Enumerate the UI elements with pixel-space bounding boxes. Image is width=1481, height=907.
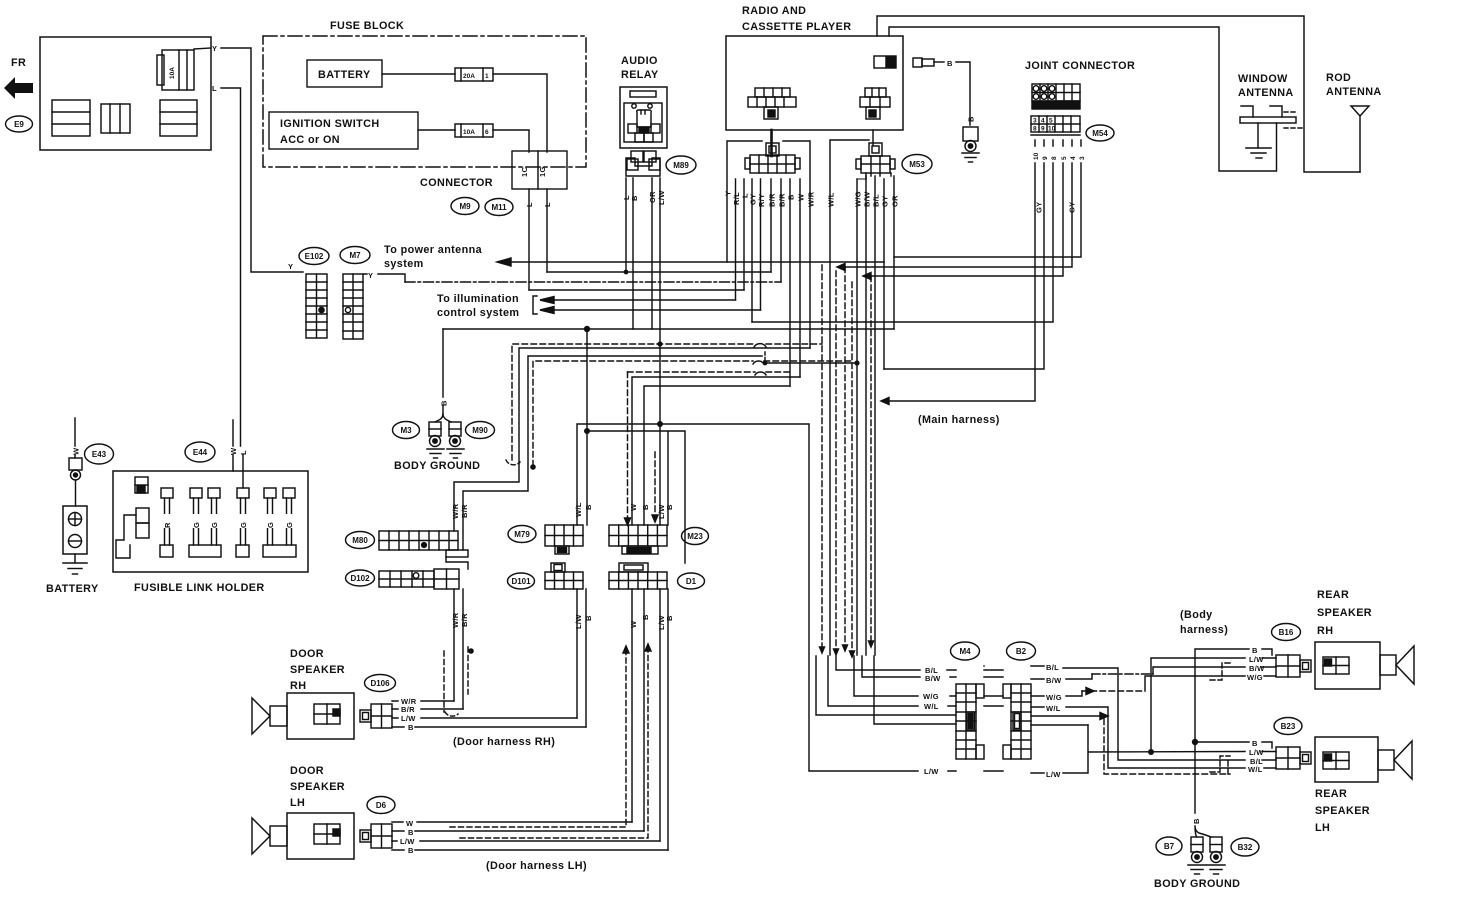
wire harness bundle dashed 4: [870, 276, 872, 643]
svg-text:(Door harness RH): (Door harness RH): [453, 736, 555, 748]
svg-text:D102: D102: [350, 574, 370, 583]
svg-text:E102: E102: [305, 252, 324, 261]
connector ref M4: [951, 642, 980, 660]
wire to illumination 2: [551, 309, 761, 311]
wire L from 1C down: [528, 189, 530, 290]
wire radio R/L to illumination: [735, 179, 737, 300]
fusible link hook wire in holder: [116, 508, 149, 558]
ground symbol M3: [427, 449, 444, 458]
connector ref B16: [1272, 624, 1301, 641]
speaker rear LH: [1315, 737, 1412, 782]
connector ref B7: [1156, 837, 1182, 855]
svg-text:M7: M7: [349, 251, 361, 260]
svg-text:W/L: W/L: [1248, 765, 1263, 774]
svg-text:B/R: B/R: [768, 193, 777, 207]
svg-text:B/R: B/R: [401, 705, 415, 714]
svg-text:W/L: W/L: [924, 702, 939, 711]
svg-text:REAR: REAR: [1317, 589, 1349, 601]
connector M4 grid: [956, 684, 984, 759]
svg-text:W/L: W/L: [574, 502, 583, 517]
connector D102 grid: [379, 569, 459, 589]
svg-text:B: B: [787, 194, 796, 200]
ground symbol M90: [447, 449, 464, 458]
connector M7 grid: [343, 274, 363, 339]
svg-text:L/W: L/W: [401, 714, 416, 723]
svg-text:1G: 1G: [538, 166, 547, 177]
connector M23 grid: [609, 525, 667, 554]
svg-text:M54: M54: [1092, 129, 1108, 138]
svg-text:B23: B23: [1281, 722, 1296, 731]
svg-text:B: B: [584, 615, 593, 621]
wire D101 L/W down to D106: [576, 589, 578, 718]
svg-text:(Body: (Body: [1180, 609, 1213, 621]
wire B/R front door feed (M80 to jog): [463, 356, 762, 550]
svg-text:B: B: [665, 615, 674, 621]
svg-text:L/W: L/W: [1249, 748, 1264, 757]
svg-text:W/G: W/G: [1046, 693, 1062, 702]
wire W/R front door feed (M80 to radio W/R): [454, 348, 810, 531]
svg-text:4: 4: [1041, 118, 1045, 125]
svg-text:ANTENNA: ANTENNA: [1238, 87, 1294, 99]
svg-text:W: W: [629, 503, 638, 511]
wire JC pin5: [871, 140, 1063, 276]
svg-text:B: B: [1252, 739, 1258, 748]
jog B/R to W/G junction: [764, 352, 766, 363]
svg-text:B/W: B/W: [925, 674, 941, 683]
wire M4-B2 inline links: [984, 670, 1003, 771]
svg-text:M90: M90: [472, 426, 488, 435]
connector D6: [360, 824, 392, 848]
svg-text:IGNITION SWITCH: IGNITION SWITCH: [280, 118, 380, 130]
wire Y dash-dot trunk: [405, 281, 781, 283]
svg-text:B/R: B/R: [460, 613, 469, 627]
wire D102 W/R down to D106: [453, 589, 455, 701]
svg-text:Y: Y: [288, 262, 293, 271]
svg-text:M89: M89: [673, 161, 689, 170]
wire front speaker B (radio B to M23): [644, 386, 790, 525]
wire L from E9 down to fusible link holder: [221, 88, 241, 446]
wire battery to fuse 20A: [382, 73, 455, 75]
svg-text:GY: GY: [1068, 202, 1077, 213]
fuse 10A 6: [455, 124, 493, 137]
ground battery: [63, 554, 87, 574]
wire B2 mid pin harness stub 2: [1031, 724, 1088, 726]
speaker door RH: [252, 693, 354, 739]
wire M4 mid pin 1: [816, 656, 956, 715]
svg-text:ROD: ROD: [1326, 72, 1351, 84]
svg-text:BATTERY: BATTERY: [318, 69, 371, 81]
speaker door LH: [252, 813, 354, 859]
fusible link G5: [263, 488, 296, 557]
wire D106 B/R: [392, 708, 463, 710]
connector 1C 1G: [512, 151, 567, 189]
svg-text:G: G: [266, 522, 275, 528]
wire B/W bundle corner to M4: [862, 656, 956, 677]
connector ref M89: [666, 156, 696, 174]
svg-text:E44: E44: [193, 448, 208, 457]
svg-text:B16: B16: [1279, 628, 1294, 637]
wire radio B/R (2) to ACC line: [780, 179, 782, 282]
wire JC pin9: [884, 140, 1044, 369]
svg-text:DOOR: DOOR: [290, 648, 324, 660]
svg-text:M80: M80: [352, 536, 368, 545]
svg-text:4: 4: [1070, 156, 1077, 160]
svg-text:L/W: L/W: [924, 767, 939, 776]
svg-text:RADIO AND: RADIO AND: [742, 5, 806, 17]
svg-text:W/R: W/R: [807, 191, 816, 207]
svg-text:8: 8: [1033, 126, 1037, 133]
svg-text:L/W: L/W: [1046, 770, 1061, 779]
connector ref M79: [508, 526, 536, 543]
svg-text:B: B: [408, 846, 414, 855]
wire harness dashed loop B: [533, 361, 753, 466]
svg-text:E43: E43: [92, 450, 107, 459]
svg-text:To power antenna: To power antenna: [384, 244, 483, 256]
relay U1 audio relay box: [620, 87, 667, 148]
wire ignition to fuse 10A: [418, 129, 455, 131]
svg-text:R/Y: R/Y: [757, 194, 766, 207]
wire B/L bundle corner to M4: [836, 656, 956, 670]
connector symbol middle in E9 box: [101, 104, 130, 133]
svg-text:SPEAKER: SPEAKER: [1317, 607, 1372, 619]
svg-text:10A: 10A: [463, 129, 475, 136]
arrow bundle dashed 3: [850, 651, 855, 657]
svg-text:R: R: [163, 522, 172, 528]
svg-text:BATTERY: BATTERY: [46, 583, 99, 595]
svg-text:ACC or ON: ACC or ON: [280, 134, 340, 146]
svg-text:M53: M53: [909, 160, 925, 169]
svg-text:L: L: [212, 84, 217, 93]
svg-text:B: B: [967, 116, 976, 122]
connector B23: [1276, 747, 1311, 769]
svg-text:M9: M9: [459, 202, 471, 211]
svg-text:L/W: L/W: [574, 614, 583, 629]
junction door harness RH: [468, 648, 474, 654]
connector ref M23: [682, 528, 709, 545]
svg-text:E9: E9: [14, 120, 24, 129]
wire relay B down to ground line: [632, 178, 634, 329]
svg-text:W/L: W/L: [1046, 704, 1061, 713]
wire L lower segment into link: [242, 455, 244, 488]
ground condenser: [962, 153, 979, 162]
wire JC pin4: [845, 140, 1072, 267]
wire fuse 10A to connector 1C: [493, 130, 529, 152]
svg-text:L: L: [525, 202, 534, 207]
svg-text:W/G: W/G: [923, 692, 939, 701]
svg-text:D1: D1: [686, 577, 697, 586]
arrow W/G harness: [1086, 688, 1094, 695]
svg-text:W/R: W/R: [451, 612, 460, 628]
wire radio B down into maze: [789, 179, 791, 386]
connector ref M54: [1086, 125, 1114, 141]
svg-text:W: W: [72, 447, 81, 455]
svg-text:10A: 10A: [169, 67, 176, 79]
svg-text:FR: FR: [11, 57, 26, 69]
connector ref E102: [299, 248, 329, 265]
svg-text:OR: OR: [891, 195, 900, 207]
fusible link small fuse in holder: [135, 477, 148, 493]
svg-text:B/L: B/L: [872, 194, 881, 207]
svg-text:DOOR: DOOR: [290, 765, 324, 777]
bracket illumination: [533, 296, 537, 314]
connector ref M3: [393, 422, 420, 439]
svg-text:B: B: [630, 195, 639, 201]
fusible link G3 (L wire): [236, 488, 249, 557]
wire D106 W/R: [392, 700, 454, 702]
junction dashed B: [530, 464, 536, 470]
svg-text:5: 5: [1061, 156, 1068, 160]
junction W/G branch: [763, 361, 768, 366]
wire B rear speakers to body ground: [1195, 649, 1249, 813]
junction M79 B on ground trunk: [584, 326, 590, 332]
svg-text:B2: B2: [1016, 647, 1027, 656]
arrow bundle dashed 1: [820, 647, 825, 653]
svg-text:10: 10: [1033, 152, 1040, 160]
fuse symbol left in E9 box: [52, 100, 90, 136]
wire B2 mid pin harness stub 1: [1031, 715, 1100, 717]
arrow illumination 1: [540, 297, 554, 304]
wire radio L to ACC line: [743, 179, 745, 290]
svg-text:BODY GROUND: BODY GROUND: [1154, 878, 1240, 890]
joint connector upper grid: [1032, 84, 1080, 109]
svg-text:B: B: [641, 614, 650, 620]
connector ref E43: [85, 444, 114, 464]
svg-text:G: G: [285, 522, 294, 528]
svg-text:harness): harness): [1180, 624, 1228, 636]
wire ACC line (1C L to radio B/R2): [529, 289, 744, 291]
wire relay L/W down through maze to M23: [659, 178, 661, 525]
wire M53 W/L (routed around connector) down to M4 bundle: [830, 140, 869, 655]
connector ref D1: [678, 573, 705, 589]
connector ref M53: [902, 155, 932, 174]
harness cut arc A: [506, 460, 520, 465]
body ground split: [435, 414, 451, 422]
connector ref B32: [1231, 838, 1259, 856]
svg-text:B/R: B/R: [460, 504, 469, 518]
connector ref M80: [346, 532, 375, 549]
svg-text:W/R: W/R: [451, 503, 460, 519]
svg-text:1: 1: [485, 73, 489, 80]
fuse 10A (vertical) in E9 box: [157, 48, 211, 90]
svg-text:G: G: [210, 522, 219, 528]
arrow harness JC pin4: [837, 264, 845, 271]
svg-text:BODY GROUND: BODY GROUND: [394, 460, 480, 472]
battery BT1: [63, 506, 87, 554]
svg-text:B7: B7: [1164, 842, 1175, 851]
svg-text:W: W: [797, 193, 806, 201]
body ground split rear: [1195, 826, 1211, 837]
harness joint arc A: [754, 344, 766, 347]
wire L/W branch to M4: [809, 770, 956, 772]
wire D6 B: [392, 830, 644, 832]
svg-text:M23: M23: [687, 532, 703, 541]
svg-text:M79: M79: [514, 530, 530, 539]
svg-text:M3: M3: [400, 426, 412, 435]
arrow harness C down: [625, 518, 631, 525]
connector ref M11: [485, 199, 513, 216]
arrow harness L/W down: [652, 515, 658, 522]
wire W/L bundle corner to M4: [828, 656, 956, 706]
arrow harness JC pin5: [863, 273, 871, 280]
arrow door harness LH 2: [645, 644, 651, 651]
radio internal connector grid right: [860, 88, 890, 119]
svg-text:Y: Y: [368, 271, 373, 280]
wire B to condenser: [956, 62, 970, 125]
svg-text:CONNECTOR: CONNECTOR: [420, 177, 493, 189]
dashed body harness boundary: [1104, 719, 1230, 774]
arrow to power antenna: [497, 258, 511, 266]
fusible link R: [160, 488, 173, 557]
condenser on B wire: [963, 127, 978, 152]
wire M53 B/W down to M4 bundle: [866, 173, 871, 655]
connector D1 grid: [609, 563, 667, 589]
wire harness dashed partner L/W: [654, 452, 656, 515]
connector ref D106: [365, 675, 396, 692]
joint connector pin numbers: [1033, 152, 1086, 160]
svg-text:B: B: [408, 828, 414, 837]
connector D101 grid: [545, 563, 583, 589]
rod antenna element: [1351, 106, 1369, 172]
svg-text:L/W: L/W: [400, 837, 415, 846]
wire W/L B2 to B23: [1031, 707, 1245, 768]
wire D1 W down to D6: [631, 589, 633, 822]
svg-text:FUSIBLE LINK HOLDER: FUSIBLE LINK HOLDER: [134, 582, 265, 594]
svg-text:LH: LH: [1315, 822, 1330, 834]
arrow bundle dashed 1b: [834, 649, 839, 655]
svg-text:B/W: B/W: [1046, 676, 1062, 685]
connector ref M90: [466, 422, 495, 439]
svg-text:B: B: [641, 504, 650, 510]
connector ref B23: [1274, 718, 1302, 735]
svg-text:Y: Y: [212, 44, 217, 53]
ground post M90: [449, 422, 461, 447]
wire shield B line (M79 B / M23 B / D1): [587, 329, 685, 563]
junction relay L on battery line: [624, 270, 629, 275]
svg-text:W/L: W/L: [827, 192, 836, 207]
wire radio R/Y to illumination: [760, 179, 762, 310]
wire Y from M7 (dash-dot to radio Y): [363, 274, 405, 282]
connector E102 grid: [306, 274, 327, 338]
fusible link G2: [189, 488, 221, 557]
ground post M3: [429, 422, 441, 447]
fuse block dash-dot border: [263, 36, 586, 167]
wire D1 B right down to D6: [667, 589, 669, 850]
wire JC pin3 to M53 OR: [894, 140, 1081, 257]
svg-text:20A: 20A: [463, 73, 475, 80]
svg-text:9: 9: [1041, 126, 1045, 133]
ground post B32: [1210, 837, 1222, 863]
radio B pigtail connector: [913, 58, 944, 67]
svg-text:G: G: [239, 522, 248, 528]
wire rear L/W branch line: [577, 424, 809, 770]
connector M80 grid: [379, 531, 468, 557]
wire Y from E9 down to E102: [221, 48, 303, 272]
wire radio W/R (routed around connector) down into maze: [783, 141, 810, 348]
radio main connector (10pin): [745, 130, 800, 173]
svg-text:8: 8: [1051, 156, 1058, 160]
harness joint arc B: [753, 361, 764, 364]
dashed door harness LH boundary 1: [450, 652, 626, 827]
svg-text:W/G: W/G: [1247, 673, 1263, 682]
wire relay L down to junction 272: [625, 178, 627, 272]
wire radio Y (pin1, routed around connector): [727, 141, 762, 262]
svg-text:1C: 1C: [520, 167, 529, 177]
wire radio B/R (1) to battery feed line: [770, 179, 772, 272]
junction dashed A on L/W wire: [657, 341, 662, 346]
arrow door harness LH 1: [623, 646, 629, 653]
wire D1 L/W down to D6: [659, 589, 661, 841]
wire D6 W: [392, 821, 632, 823]
arrow bundle dashed 4: [869, 641, 874, 647]
wire harness bundle dashed 1b: [835, 271, 837, 650]
svg-text:W: W: [629, 620, 638, 628]
svg-text:M4: M4: [959, 647, 971, 656]
speaker rear RH: [1315, 642, 1414, 689]
svg-text:SPEAKER: SPEAKER: [1315, 805, 1370, 817]
wire D6 B 2: [392, 849, 668, 851]
junction shield B: [584, 428, 590, 434]
wire W stub to holder: [232, 420, 234, 471]
radio antenna jack component: [874, 56, 896, 68]
connector M89 body: [626, 151, 660, 176]
wire body ground drop: [442, 329, 444, 414]
wire L/W B2 to B16 B23: [1031, 725, 1245, 773]
wire JC pin8 to radio GY: [752, 140, 1053, 322]
wire radio GY to joint connector line: [751, 179, 753, 322]
svg-text:GY: GY: [1035, 202, 1044, 213]
connector M79 grid: [545, 525, 583, 554]
wire D102 B/R down to D106: [462, 589, 464, 709]
svg-text:(Main harness): (Main harness): [918, 414, 1000, 426]
svg-text:RELAY: RELAY: [621, 69, 659, 81]
junction B at B23: [1192, 739, 1198, 745]
connector B16: [1276, 655, 1311, 677]
wire battery feed line (1G L to radio B/R, relay L): [547, 271, 771, 273]
svg-text:AUDIO: AUDIO: [621, 55, 658, 67]
svg-text:WINDOW: WINDOW: [1238, 73, 1288, 85]
svg-text:B32: B32: [1238, 843, 1253, 852]
svg-text:CASSETTE PLAYER: CASSETTE PLAYER: [742, 21, 851, 33]
fuse 20A 1: [455, 68, 493, 81]
wire harness dashed loop C: [627, 372, 629, 518]
wire M53 W/G down to M4 bundle: [857, 173, 866, 655]
battery terminal connector: [69, 458, 82, 506]
svg-text:L: L: [239, 450, 248, 455]
ground post B7: [1191, 837, 1203, 863]
wire harness bundle dashed 3: [851, 282, 853, 653]
svg-text:B: B: [947, 59, 953, 68]
arrow illumination 2: [540, 307, 554, 314]
connector ref M9: [451, 198, 479, 215]
svg-text:REAR: REAR: [1315, 788, 1347, 800]
connector ref D6: [367, 797, 395, 814]
svg-text:G: G: [192, 522, 201, 528]
joint connector lower grid M54: [1031, 116, 1080, 135]
svg-text:B/L: B/L: [1046, 663, 1059, 672]
fuse symbol right in E9 box: [160, 100, 197, 136]
arrow harness JC pin10: [881, 398, 889, 405]
wire D1 B down to D6: [643, 589, 645, 831]
ground window antenna: [1246, 148, 1271, 158]
wire antenna feed radio to rod antenna: [877, 16, 1360, 172]
svg-text:B/W: B/W: [1249, 664, 1265, 673]
arrow body harness stub: [1100, 713, 1108, 720]
ground symbol B7: [1188, 865, 1206, 874]
svg-text:M11: M11: [491, 203, 507, 212]
wire fuse 20A to connector 1G: [493, 74, 547, 152]
window antenna element: [1240, 106, 1302, 148]
svg-text:D106: D106: [370, 679, 390, 688]
